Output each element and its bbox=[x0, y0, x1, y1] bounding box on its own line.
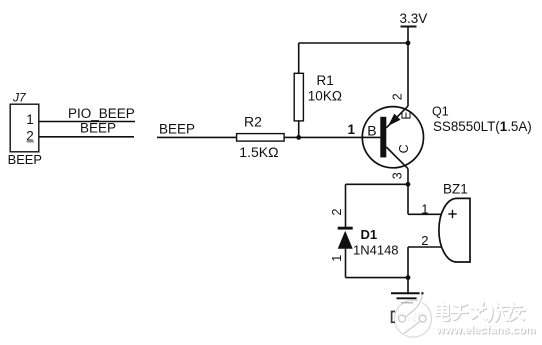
svg-text:3.3V: 3.3V bbox=[400, 11, 428, 26]
emitter diagonal bbox=[386, 106, 408, 128]
svg-text:B: B bbox=[367, 122, 376, 138]
svg-text:www.elecfans.com: www.elecfans.com bbox=[435, 324, 535, 336]
svg-text:3: 3 bbox=[390, 172, 404, 179]
wire buzzer pin2 horizontal bbox=[408, 246, 442, 248]
wire buzzer pin2 vertical bbox=[407, 247, 409, 278]
watermark small circle right bbox=[419, 315, 426, 322]
wire collector node to diode branch bbox=[346, 183, 409, 185]
ground bar 1 right stub bbox=[421, 292, 423, 294]
watermark logo circle bbox=[395, 300, 432, 337]
junction dot base node bbox=[296, 135, 301, 140]
wire buzzer pin1 horizontal bbox=[408, 213, 442, 215]
wire diode bottom lead bbox=[345, 249, 347, 278]
wire bottom horizontal bbox=[346, 277, 409, 279]
svg-text:BEEP: BEEP bbox=[80, 120, 116, 135]
ground bar 1 bbox=[391, 292, 423, 294]
svg-text:BEEP: BEEP bbox=[159, 122, 195, 137]
wire pin 2 BEEP bbox=[39, 136, 134, 138]
svg-text:1: 1 bbox=[421, 201, 428, 216]
svg-text:BZ1: BZ1 bbox=[443, 181, 468, 196]
junction dot collector node bbox=[406, 182, 411, 187]
wire power stem bbox=[407, 27, 409, 44]
svg-text:Q1: Q1 bbox=[432, 104, 449, 118]
svg-text:10KΩ: 10KΩ bbox=[308, 88, 342, 103]
svg-text:D1: D1 bbox=[361, 227, 378, 242]
connector J7 box bbox=[10, 104, 39, 152]
svg-text:BEEP: BEEP bbox=[8, 152, 42, 167]
svg-text:2: 2 bbox=[421, 233, 428, 248]
wire collector down bbox=[407, 169, 409, 185]
svg-text:1N4148: 1N4148 bbox=[353, 243, 399, 258]
watermark swoosh bbox=[405, 291, 422, 317]
wire diode top lead bbox=[345, 184, 347, 227]
watermark chinese characters çµå­åç§å bbox=[436, 302, 525, 322]
svg-text:J7: J7 bbox=[12, 90, 27, 104]
watermark diagonal tail bbox=[404, 322, 420, 335]
wire emitter to power bbox=[407, 43, 409, 106]
svg-text:2: 2 bbox=[391, 93, 405, 100]
resistor R2 bbox=[237, 134, 285, 142]
svg-text:1.5KΩ: 1.5KΩ bbox=[239, 144, 278, 160]
transistor Q1 base bar bbox=[380, 117, 386, 158]
svg-text:E: E bbox=[400, 111, 414, 119]
diode D1 triangle bbox=[338, 231, 353, 249]
power symbol 3.3V bar bbox=[401, 26, 417, 28]
emitter arrow bbox=[388, 114, 400, 126]
ground label bracket bbox=[392, 312, 395, 323]
junction dot ground node bbox=[406, 275, 411, 280]
svg-text:2: 2 bbox=[26, 128, 34, 143]
svg-text:1: 1 bbox=[26, 112, 34, 127]
wire buzzer pin1 vertical bbox=[407, 184, 409, 214]
svg-text:PIO_BEEP: PIO_BEEP bbox=[68, 106, 135, 121]
diode D1 cathode bar bbox=[338, 227, 353, 230]
collector diagonal bbox=[386, 147, 408, 169]
junction dot power node bbox=[406, 41, 411, 46]
pin 2 underline bbox=[27, 141, 35, 143]
svg-text:1: 1 bbox=[330, 255, 344, 262]
ground bar 3 bbox=[401, 302, 413, 304]
buzzer plus sign bbox=[448, 210, 456, 218]
buzzer BZ1 body bbox=[439, 198, 470, 262]
transistor Q1 body circle bbox=[362, 107, 423, 168]
svg-text:C: C bbox=[397, 144, 411, 153]
wire R1 bottom lead bbox=[298, 121, 300, 137]
wire top horizontal bbox=[299, 42, 408, 44]
wire ground stem bbox=[407, 278, 409, 294]
wire pin 1 PIO_BEEP bbox=[39, 121, 135, 123]
wire R2 to base bbox=[284, 136, 380, 138]
svg-text:2: 2 bbox=[330, 208, 344, 215]
ground bar 2 bbox=[397, 297, 417, 299]
svg-text:R1: R1 bbox=[317, 73, 334, 88]
wire R1 top lead bbox=[298, 43, 300, 73]
svg-text:1: 1 bbox=[348, 122, 356, 137]
svg-text:SS8550LT(1.5A): SS8550LT(1.5A) bbox=[433, 119, 532, 134]
resistor R1 bbox=[294, 73, 303, 121]
svg-text:R2: R2 bbox=[244, 114, 262, 130]
wire BEEP to R2 bbox=[157, 136, 237, 138]
watermark small circle left bbox=[399, 315, 406, 322]
